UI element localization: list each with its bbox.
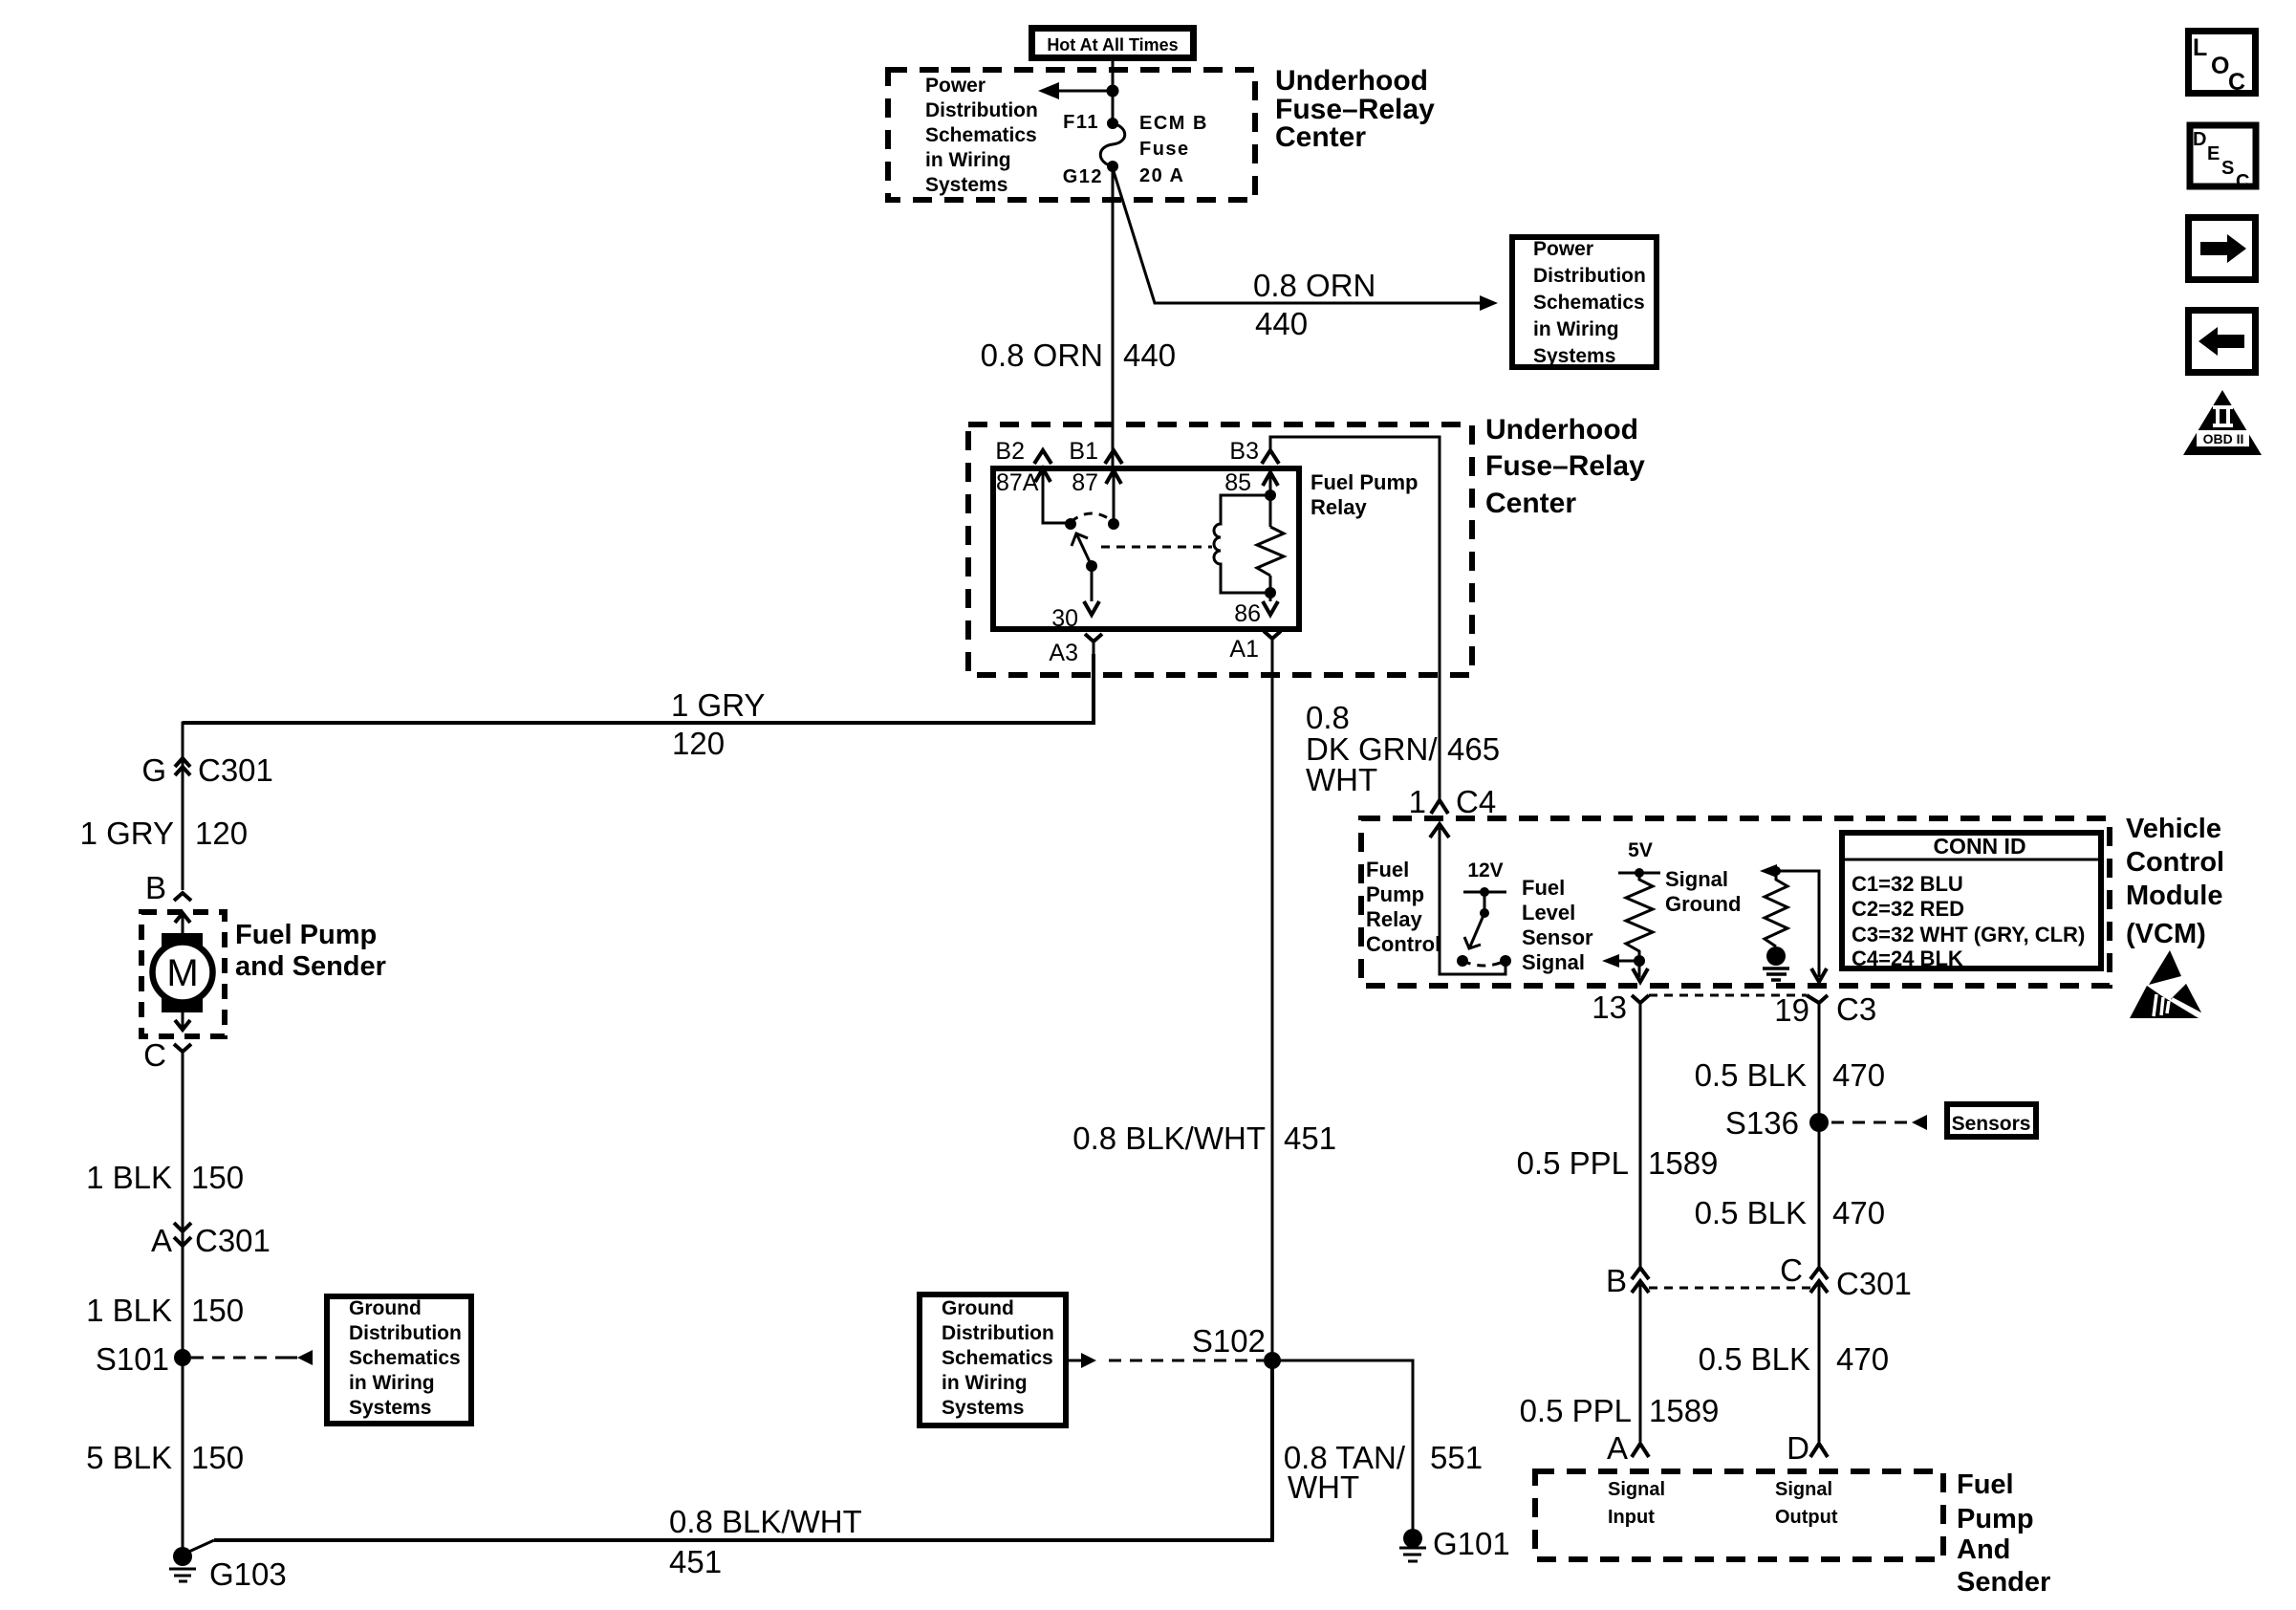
svg-text:0.5 BLK: 0.5 BLK — [1695, 1057, 1807, 1093]
svg-text:1589: 1589 — [1649, 1393, 1719, 1428]
svg-text:ECM B: ECM B — [1139, 113, 1208, 134]
svg-text:0.8 ORN: 0.8 ORN — [1253, 268, 1375, 303]
svg-text:WHT: WHT — [1288, 1469, 1359, 1505]
svg-text:C3=32 WHT (GRY, CLR): C3=32 WHT (GRY, CLR) — [1852, 923, 2085, 946]
svg-text:Control: Control — [1366, 932, 1440, 956]
svg-text:Schematics: Schematics — [1533, 292, 1645, 314]
svg-text:0.5 BLK: 0.5 BLK — [1699, 1341, 1810, 1377]
svg-text:A: A — [1607, 1430, 1628, 1466]
svg-text:S101: S101 — [96, 1341, 169, 1377]
svg-text:G: G — [141, 752, 166, 788]
svg-text:B1: B1 — [1069, 438, 1098, 465]
svg-text:Output: Output — [1775, 1507, 1838, 1528]
svg-text:0.5 PPL: 0.5 PPL — [1520, 1393, 1632, 1428]
svg-text:D: D — [1787, 1430, 1809, 1466]
svg-text:Systems: Systems — [349, 1397, 431, 1419]
svg-text:Distribution: Distribution — [942, 1322, 1054, 1344]
svg-text:0.8: 0.8 — [1306, 700, 1350, 735]
svg-text:C1=32 BLU: C1=32 BLU — [1852, 872, 1963, 896]
svg-text:Fuse–Relay: Fuse–Relay — [1485, 450, 1645, 482]
svg-text:120: 120 — [672, 726, 725, 761]
svg-text:30: 30 — [1051, 605, 1078, 632]
svg-text:C4: C4 — [1456, 784, 1496, 819]
svg-text:Power: Power — [925, 75, 986, 97]
svg-text:Signal: Signal — [1775, 1479, 1832, 1500]
svg-text:551: 551 — [1430, 1440, 1483, 1475]
svg-text:451: 451 — [1284, 1120, 1336, 1156]
svg-text:Input: Input — [1608, 1507, 1655, 1528]
svg-text:Fuel: Fuel — [1957, 1469, 2014, 1500]
svg-text:120: 120 — [195, 816, 248, 851]
svg-text:G103: G103 — [209, 1556, 287, 1592]
svg-text:Distribution: Distribution — [349, 1322, 462, 1344]
svg-text:in Wiring: in Wiring — [1533, 318, 1619, 340]
svg-text:Ground: Ground — [942, 1297, 1014, 1319]
svg-text:B2: B2 — [995, 438, 1025, 465]
svg-text:S136: S136 — [1725, 1105, 1799, 1141]
svg-text:B3: B3 — [1229, 438, 1259, 465]
svg-text:S102: S102 — [1192, 1323, 1266, 1359]
svg-text:470: 470 — [1832, 1195, 1885, 1230]
svg-text:G101: G101 — [1433, 1526, 1510, 1561]
svg-text:Schematics: Schematics — [349, 1347, 461, 1369]
svg-text:Underhood: Underhood — [1275, 65, 1428, 97]
svg-text:Distribution: Distribution — [925, 99, 1038, 121]
svg-text:Distribution: Distribution — [1533, 265, 1646, 287]
svg-text:in Wiring: in Wiring — [349, 1372, 435, 1394]
svg-text:Schematics: Schematics — [942, 1347, 1053, 1369]
svg-text:0.8 BLK/WHT: 0.8 BLK/WHT — [1072, 1120, 1266, 1156]
svg-text:5V: 5V — [1628, 839, 1653, 861]
svg-text:A: A — [151, 1223, 172, 1258]
svg-text:150: 150 — [191, 1160, 244, 1195]
svg-text:(VCM): (VCM) — [2126, 919, 2206, 949]
svg-text:0.5 BLK: 0.5 BLK — [1695, 1195, 1807, 1230]
svg-text:Sensor: Sensor — [1522, 925, 1593, 949]
svg-text:1 BLK: 1 BLK — [86, 1160, 172, 1195]
svg-text:465: 465 — [1447, 731, 1500, 767]
svg-text:WHT: WHT — [1306, 762, 1377, 797]
svg-text:Vehicle: Vehicle — [2126, 814, 2221, 844]
svg-text:Schematics: Schematics — [925, 124, 1037, 146]
svg-text:86: 86 — [1234, 600, 1261, 627]
svg-text:Relay: Relay — [1366, 907, 1422, 931]
svg-text:1 GRY: 1 GRY — [80, 816, 174, 851]
svg-text:19: 19 — [1774, 992, 1809, 1028]
svg-text:0.8 BLK/WHT: 0.8 BLK/WHT — [669, 1504, 862, 1539]
svg-text:440: 440 — [1123, 337, 1176, 373]
svg-text:1 GRY: 1 GRY — [671, 687, 765, 723]
svg-text:M: M — [166, 952, 198, 994]
svg-text:B: B — [1606, 1263, 1627, 1298]
svg-text:0.5 PPL: 0.5 PPL — [1517, 1145, 1629, 1181]
svg-text:20 A: 20 A — [1139, 165, 1185, 186]
svg-text:O: O — [2211, 53, 2229, 79]
svg-text:Ground: Ground — [1665, 892, 1741, 916]
svg-text:Signal: Signal — [1522, 950, 1585, 974]
svg-text:87: 87 — [1072, 469, 1098, 496]
svg-text:Fuel: Fuel — [1366, 858, 1409, 881]
svg-text:G12: G12 — [1063, 166, 1103, 187]
svg-text:0.8 ORN: 0.8 ORN — [981, 337, 1103, 373]
svg-text:Module: Module — [2126, 881, 2223, 911]
svg-text:150: 150 — [191, 1440, 244, 1475]
svg-text:C301: C301 — [198, 752, 273, 788]
svg-text:Power: Power — [1533, 238, 1593, 260]
svg-text:Pump: Pump — [1957, 1504, 2034, 1534]
svg-text:Fuel Pump: Fuel Pump — [1310, 470, 1418, 494]
svg-text:87A: 87A — [996, 469, 1039, 496]
svg-text:C4=24 BLK: C4=24 BLK — [1852, 946, 1963, 970]
svg-text:Systems: Systems — [1533, 345, 1615, 367]
svg-text:13: 13 — [1592, 990, 1627, 1025]
svg-text:C301: C301 — [195, 1223, 271, 1258]
svg-text:150: 150 — [191, 1293, 244, 1328]
svg-text:E: E — [2207, 143, 2220, 164]
svg-text:D: D — [2193, 129, 2206, 150]
svg-text:C: C — [2236, 171, 2249, 192]
svg-text:C: C — [2228, 69, 2245, 96]
svg-text:1 BLK: 1 BLK — [86, 1293, 172, 1328]
svg-text:F11: F11 — [1063, 112, 1099, 133]
svg-text:A3: A3 — [1049, 640, 1078, 666]
svg-text:L: L — [2193, 34, 2207, 61]
svg-text:Relay: Relay — [1310, 495, 1367, 519]
svg-text:C3: C3 — [1836, 991, 1876, 1027]
svg-text:Center: Center — [1485, 488, 1576, 519]
svg-text:and Sender: and Sender — [235, 951, 386, 982]
svg-text:OBD II: OBD II — [2203, 431, 2244, 446]
svg-text:CONN ID: CONN ID — [1933, 834, 2025, 859]
svg-text:1589: 1589 — [1648, 1145, 1718, 1181]
svg-text:And: And — [1957, 1534, 2010, 1565]
svg-text:Pump: Pump — [1366, 882, 1424, 906]
svg-text:Control: Control — [2126, 847, 2224, 878]
svg-text:C301: C301 — [1836, 1266, 1912, 1301]
svg-text:Level: Level — [1522, 901, 1575, 925]
svg-text:85: 85 — [1224, 469, 1251, 496]
svg-text:Fuel: Fuel — [1522, 876, 1565, 900]
svg-text:Ground: Ground — [349, 1297, 422, 1319]
svg-text:C2=32 RED: C2=32 RED — [1852, 897, 1964, 921]
svg-text:470: 470 — [1832, 1057, 1885, 1093]
svg-text:Hot At All Times: Hot At All Times — [1047, 35, 1178, 54]
svg-text:Signal: Signal — [1608, 1479, 1665, 1500]
svg-text:in Wiring: in Wiring — [925, 149, 1011, 171]
svg-text:Fuel Pump: Fuel Pump — [235, 920, 377, 950]
svg-text:470: 470 — [1836, 1341, 1889, 1377]
svg-text:Systems: Systems — [942, 1397, 1024, 1419]
svg-text:Sender: Sender — [1957, 1567, 2050, 1598]
svg-text:1: 1 — [1409, 784, 1426, 819]
svg-text:C: C — [1780, 1252, 1803, 1288]
svg-text:Fuse: Fuse — [1139, 139, 1190, 160]
svg-text:440: 440 — [1255, 306, 1308, 341]
svg-text:B: B — [145, 870, 166, 905]
svg-text:5 BLK: 5 BLK — [86, 1440, 172, 1475]
svg-text:S: S — [2221, 158, 2234, 179]
svg-text:A1: A1 — [1229, 636, 1259, 663]
svg-text:12V: 12V — [1467, 859, 1503, 881]
svg-text:451: 451 — [669, 1544, 722, 1579]
svg-text:Signal: Signal — [1665, 867, 1728, 891]
svg-text:in Wiring: in Wiring — [942, 1372, 1028, 1394]
svg-text:Center: Center — [1275, 121, 1366, 153]
svg-text:Underhood: Underhood — [1485, 414, 1638, 446]
svg-text:Sensors: Sensors — [1952, 1113, 2031, 1135]
svg-text:C: C — [143, 1037, 166, 1073]
svg-text:Systems: Systems — [925, 174, 1007, 196]
